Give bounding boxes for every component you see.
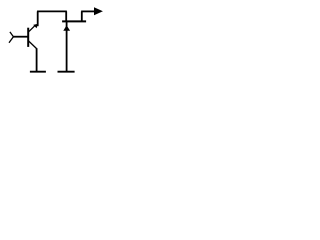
output wire shaft bbox=[81, 10, 94, 12]
transistor Q1 base wire bbox=[13, 36, 29, 38]
input signal arrowhead lower arm bbox=[9, 37, 13, 43]
top horizontal wire bbox=[37, 10, 67, 12]
right ground bar bbox=[58, 71, 75, 73]
collector vertical wire bbox=[37, 11, 39, 26]
transistor Q1 collector lead (diagonal) bbox=[29, 25, 36, 32]
upward current arrowhead bbox=[63, 25, 70, 31]
upper branch vertical wire bbox=[65, 11, 67, 21]
collector current arrowhead bbox=[33, 24, 38, 29]
lower branch vertical wire bbox=[66, 21, 68, 71]
output arrowhead bbox=[94, 7, 103, 15]
transistor Q1 emitter lead (diagonal) bbox=[29, 41, 37, 49]
horizontal junction bar bbox=[62, 20, 86, 22]
right branch vertical wire bbox=[81, 11, 83, 21]
emitter vertical wire bbox=[36, 48, 38, 71]
input signal arrowhead upper arm bbox=[10, 32, 14, 37]
transistor Q1 body bar bbox=[27, 28, 29, 47]
left ground bar bbox=[30, 71, 46, 73]
